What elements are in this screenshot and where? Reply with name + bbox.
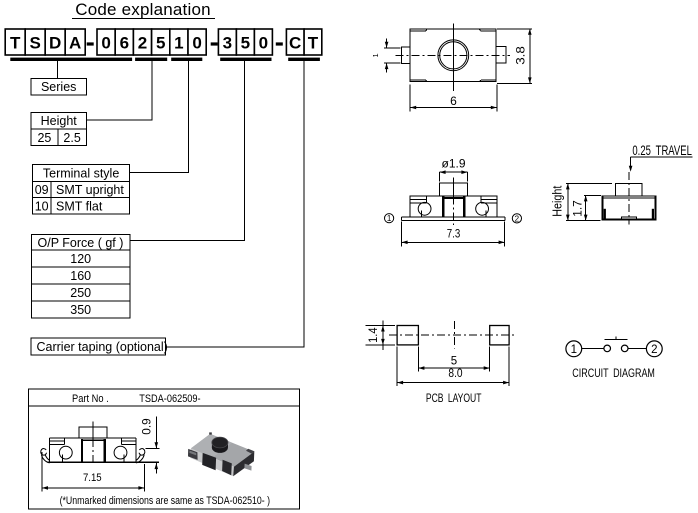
svg-text:Part No .: Part No .	[72, 393, 109, 405]
circuit diagram caption	[572, 368, 655, 380]
svg-text:1.7: 1.7	[573, 200, 585, 217]
svg-text:1.4: 1.4	[368, 327, 380, 343]
dimension phi 1.9 (actuator)	[440, 158, 468, 181]
front view center channel	[442, 197, 465, 218]
svg-text:6: 6	[120, 34, 129, 53]
switch actuator bar	[605, 336, 628, 339]
pcb left pad	[397, 326, 418, 345]
svg-text:TSDA-062509-: TSDA-062509-	[139, 393, 201, 405]
top view horizontal centerline	[395, 54, 510, 56]
series label box	[31, 79, 87, 95]
O/P force table	[32, 235, 131, 318]
part number code boxes	[5, 29, 322, 55]
profile body	[48, 438, 160, 462]
svg-text:Height: Height	[551, 185, 565, 216]
svg-text:CIRCUIT DIAGRAM: CIRCUIT DIAGRAM	[572, 368, 655, 380]
svg-text:A: A	[69, 34, 81, 53]
side view travel leader 0.25 TRAVEL	[629, 143, 693, 172]
svg-text:(*Unmarked dimensions are same: (*Unmarked dimensions are same as TSDA-0…	[60, 495, 271, 507]
svg-text:3.8: 3.8	[514, 46, 528, 65]
svg-text:1: 1	[174, 34, 183, 53]
dimension 1.4 (pad height)	[366, 320, 396, 350]
svg-text:1: 1	[387, 214, 392, 223]
dimension 1 (tab width)	[371, 38, 400, 72]
svg-text:T: T	[10, 34, 21, 53]
svg-text:5: 5	[451, 355, 457, 367]
svg-text:10: 10	[35, 199, 49, 213]
pin 2 circled number	[512, 214, 521, 224]
dimension 1.7 (body height)	[573, 195, 601, 220]
svg-text:250: 250	[70, 286, 91, 300]
svg-text:Carrier taping (optional): Carrier taping (optional)	[37, 340, 168, 354]
switch contact left	[604, 345, 611, 352]
side view body	[602, 196, 657, 220]
dimension 7.15 (lead span)	[42, 452, 144, 492]
carrier taping label box	[31, 338, 168, 355]
svg-text:8.0: 8.0	[448, 368, 462, 380]
svg-text:O/P Force ( gf ): O/P Force ( gf )	[38, 236, 124, 250]
svg-text:0.25 TRAVEL: 0.25 TRAVEL	[632, 143, 692, 158]
svg-text:S: S	[30, 34, 41, 53]
pcb vertical centerline	[453, 321, 455, 349]
pcb horizontal centerline	[389, 334, 517, 336]
underline bars	[10, 58, 320, 61]
svg-text:D: D	[49, 34, 61, 53]
wire O/P force connector	[130, 61, 244, 241]
front view left wing detail	[410, 196, 431, 217]
svg-text:Code explanation: Code explanation	[75, 0, 211, 19]
front view base terminal strip	[401, 217, 505, 221]
top view body outline	[410, 29, 496, 82]
svg-text:6: 6	[450, 94, 457, 108]
svg-text:Height: Height	[41, 114, 78, 128]
title Code explanation	[72, 0, 215, 19]
svg-text:0: 0	[101, 34, 110, 53]
svg-text:25: 25	[37, 131, 51, 145]
profile vertical centerline	[92, 422, 94, 467]
height value cells 25 / 2.5	[31, 129, 87, 146]
profile left gull-wing leg	[41, 449, 50, 463]
profile actuator button	[79, 427, 107, 438]
wire height connector	[87, 61, 152, 120]
svg-text:1: 1	[571, 344, 577, 356]
front view body	[410, 196, 497, 217]
top view actuator circle	[438, 40, 469, 71]
svg-text:1: 1	[371, 53, 380, 57]
part number table box	[28, 389, 299, 509]
wire carrier taping connector	[166, 61, 304, 347]
circuit node 2	[646, 341, 662, 357]
svg-text:2: 2	[651, 344, 657, 356]
profile center channel	[81, 439, 106, 462]
wire contact to node2	[628, 348, 646, 350]
svg-text:2: 2	[515, 214, 520, 223]
top view left terminal tab	[401, 47, 410, 64]
circuit node 1	[566, 341, 582, 357]
pcb right pad	[490, 326, 509, 345]
svg-text:0: 0	[259, 34, 268, 53]
terminal style table	[33, 165, 130, 215]
svg-text:350: 350	[70, 303, 91, 317]
svg-text:C: C	[289, 34, 301, 53]
side view actuator button	[615, 183, 642, 196]
profile left wing detail	[50, 438, 73, 462]
front view vertical centerline	[452, 178, 454, 226]
product photo	[188, 432, 255, 476]
svg-text:09: 09	[35, 183, 49, 197]
switch contact right	[621, 345, 628, 352]
pcb layout caption	[426, 391, 482, 405]
dimension 7.3 (terminal span)	[402, 222, 505, 247]
svg-text:7.3: 7.3	[447, 228, 461, 240]
wire terminal style connector	[130, 61, 189, 172]
wire series connector	[57, 61, 59, 79]
dimension 5 (pad inner span)	[418, 347, 489, 372]
svg-text:7.15: 7.15	[83, 472, 102, 484]
svg-text:T: T	[308, 34, 319, 53]
side view left terminal mark	[604, 209, 606, 219]
profile right wing detail	[114, 438, 136, 462]
svg-text:0.9: 0.9	[142, 418, 154, 434]
svg-text:0: 0	[192, 34, 201, 53]
svg-text:2: 2	[138, 34, 147, 53]
svg-text:160: 160	[70, 269, 91, 283]
svg-text:5: 5	[241, 34, 250, 53]
svg-text:PCB LAYOUT: PCB LAYOUT	[426, 391, 482, 405]
side view bottom center boss	[622, 217, 637, 219]
svg-text:Series: Series	[41, 80, 76, 94]
dimension 6 (body width)	[410, 84, 497, 111]
side view vertical centerline	[628, 172, 630, 225]
dimension 0.9 (leg height)	[142, 417, 160, 474]
svg-text:120: 120	[70, 252, 91, 266]
svg-text:2.5: 2.5	[63, 131, 80, 145]
front view actuator button	[440, 183, 468, 196]
svg-text:SMT flat: SMT flat	[56, 199, 103, 213]
dimension 3.8 (body height)	[497, 29, 532, 84]
dimension Height	[551, 183, 613, 220]
front view right wing detail	[476, 196, 497, 217]
top view right terminal tab	[496, 47, 506, 64]
top view vertical centerline	[452, 24, 454, 92]
svg-text:ø1.9: ø1.9	[442, 158, 466, 170]
svg-text:5: 5	[156, 34, 165, 53]
side view right terminal mark	[652, 209, 654, 219]
height label box	[31, 112, 87, 129]
wire node1 to contact	[582, 348, 604, 350]
profile right gull-wing leg	[136, 449, 145, 463]
svg-text:3: 3	[223, 34, 232, 53]
footnote	[60, 495, 271, 507]
svg-text:SMT upright: SMT upright	[56, 183, 124, 197]
svg-text:Terminal style: Terminal style	[43, 166, 119, 180]
dimension 8.0 (pad outer span)	[397, 347, 509, 387]
pin 1 circled number	[385, 214, 394, 224]
